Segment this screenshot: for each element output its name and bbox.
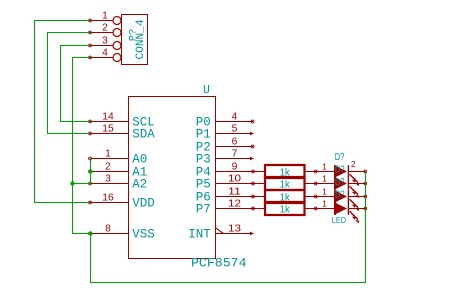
svg-text:4: 4 — [102, 48, 108, 59]
svg-text:1: 1 — [322, 162, 327, 172]
svg-text:D?: D? — [335, 164, 345, 176]
svg-text:CONN_4: CONN_4 — [135, 20, 147, 60]
svg-text:16: 16 — [102, 193, 114, 204]
svg-text:12: 12 — [228, 199, 241, 210]
svg-text:1k: 1k — [280, 192, 291, 203]
svg-text:VDD: VDD — [132, 196, 155, 210]
svg-text:8: 8 — [105, 224, 111, 235]
svg-text:11: 11 — [228, 187, 241, 198]
svg-text:2: 2 — [351, 159, 356, 169]
svg-text:4: 4 — [232, 112, 238, 123]
svg-text:U: U — [203, 84, 210, 97]
svg-text:D?: D? — [335, 189, 345, 201]
svg-text:A2: A2 — [132, 177, 147, 191]
svg-text:3: 3 — [102, 36, 108, 47]
svg-text:P7: P7 — [196, 202, 211, 216]
svg-text:P1: P1 — [196, 127, 211, 141]
svg-text:INT: INT — [188, 227, 211, 241]
svg-text:3: 3 — [105, 174, 111, 185]
svg-text:PCF8574: PCF8574 — [191, 256, 247, 271]
svg-text:1: 1 — [322, 187, 327, 197]
svg-text:2: 2 — [102, 23, 108, 34]
svg-text:SDA: SDA — [132, 127, 155, 141]
svg-text:10: 10 — [228, 174, 241, 185]
svg-text:1k: 1k — [280, 204, 291, 215]
svg-text:D?: D? — [335, 176, 345, 188]
svg-text:2: 2 — [105, 162, 111, 173]
svg-text:A0: A0 — [132, 152, 147, 166]
svg-text:5: 5 — [232, 124, 238, 135]
svg-text:9: 9 — [232, 162, 238, 173]
svg-text:1: 1 — [322, 174, 327, 184]
svg-text:D?: D? — [335, 151, 345, 163]
svg-text:6: 6 — [232, 137, 238, 148]
svg-text:1: 1 — [105, 149, 111, 160]
svg-text:P3: P3 — [196, 152, 211, 166]
svg-text:14: 14 — [102, 112, 114, 123]
svg-text:1: 1 — [102, 11, 108, 22]
svg-text:13: 13 — [228, 224, 241, 235]
svg-text:1: 1 — [322, 199, 327, 209]
svg-text:LED: LED — [332, 215, 346, 225]
svg-text:1k: 1k — [280, 167, 291, 178]
svg-text:P5: P5 — [196, 177, 211, 191]
svg-text:VSS: VSS — [132, 227, 155, 241]
svg-text:7: 7 — [232, 149, 238, 160]
svg-text:1k: 1k — [280, 179, 291, 190]
svg-text:15: 15 — [102, 124, 114, 135]
